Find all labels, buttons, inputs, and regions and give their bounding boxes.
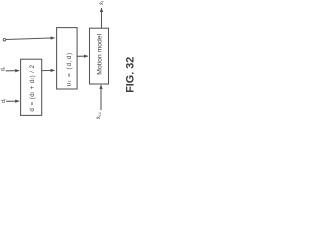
box U3: Motion model <box>90 28 109 84</box>
wire U3 output (up) to xt <box>101 8 103 28</box>
wire U1 to U2 <box>42 69 55 71</box>
svg-text:dr: dr <box>0 66 6 71</box>
figure caption FIG. 32 <box>124 57 136 93</box>
label xt (output, top) <box>99 1 105 5</box>
wire from terminal to box U2 input <box>6 38 55 40</box>
label inside U2 <box>65 52 72 86</box>
svg-text:d = (dl + dr) / 2: d = (dl + dr) / 2 <box>30 64 36 111</box>
wire U2 to U3 <box>77 55 88 57</box>
wire dl input arrow <box>6 100 19 102</box>
wire dr input arrow <box>6 70 19 72</box>
wire xt-1 input (up into U3 bottom) <box>100 85 102 110</box>
label xt-1 (input, bottom) <box>96 112 102 119</box>
label dl (input) <box>1 99 7 103</box>
svg-text:FIG. 32: FIG. 32 <box>124 57 136 93</box>
svg-text:x̄t-1: x̄t-1 <box>96 112 102 119</box>
svg-text:Motion model: Motion model <box>97 33 104 74</box>
box U1: d = (dl + dr)/2 <box>21 59 42 115</box>
label inside U1 <box>30 64 36 111</box>
label inside U3 <box>97 33 104 74</box>
svg-text:x̄t: x̄t <box>99 1 105 5</box>
input terminal circle (top-left) <box>3 38 6 41</box>
label dr (input) <box>0 66 6 71</box>
box U2: ut = (d,d) <box>57 28 78 89</box>
svg-text:ut = (d,d): ut = (d,d) <box>65 52 72 86</box>
